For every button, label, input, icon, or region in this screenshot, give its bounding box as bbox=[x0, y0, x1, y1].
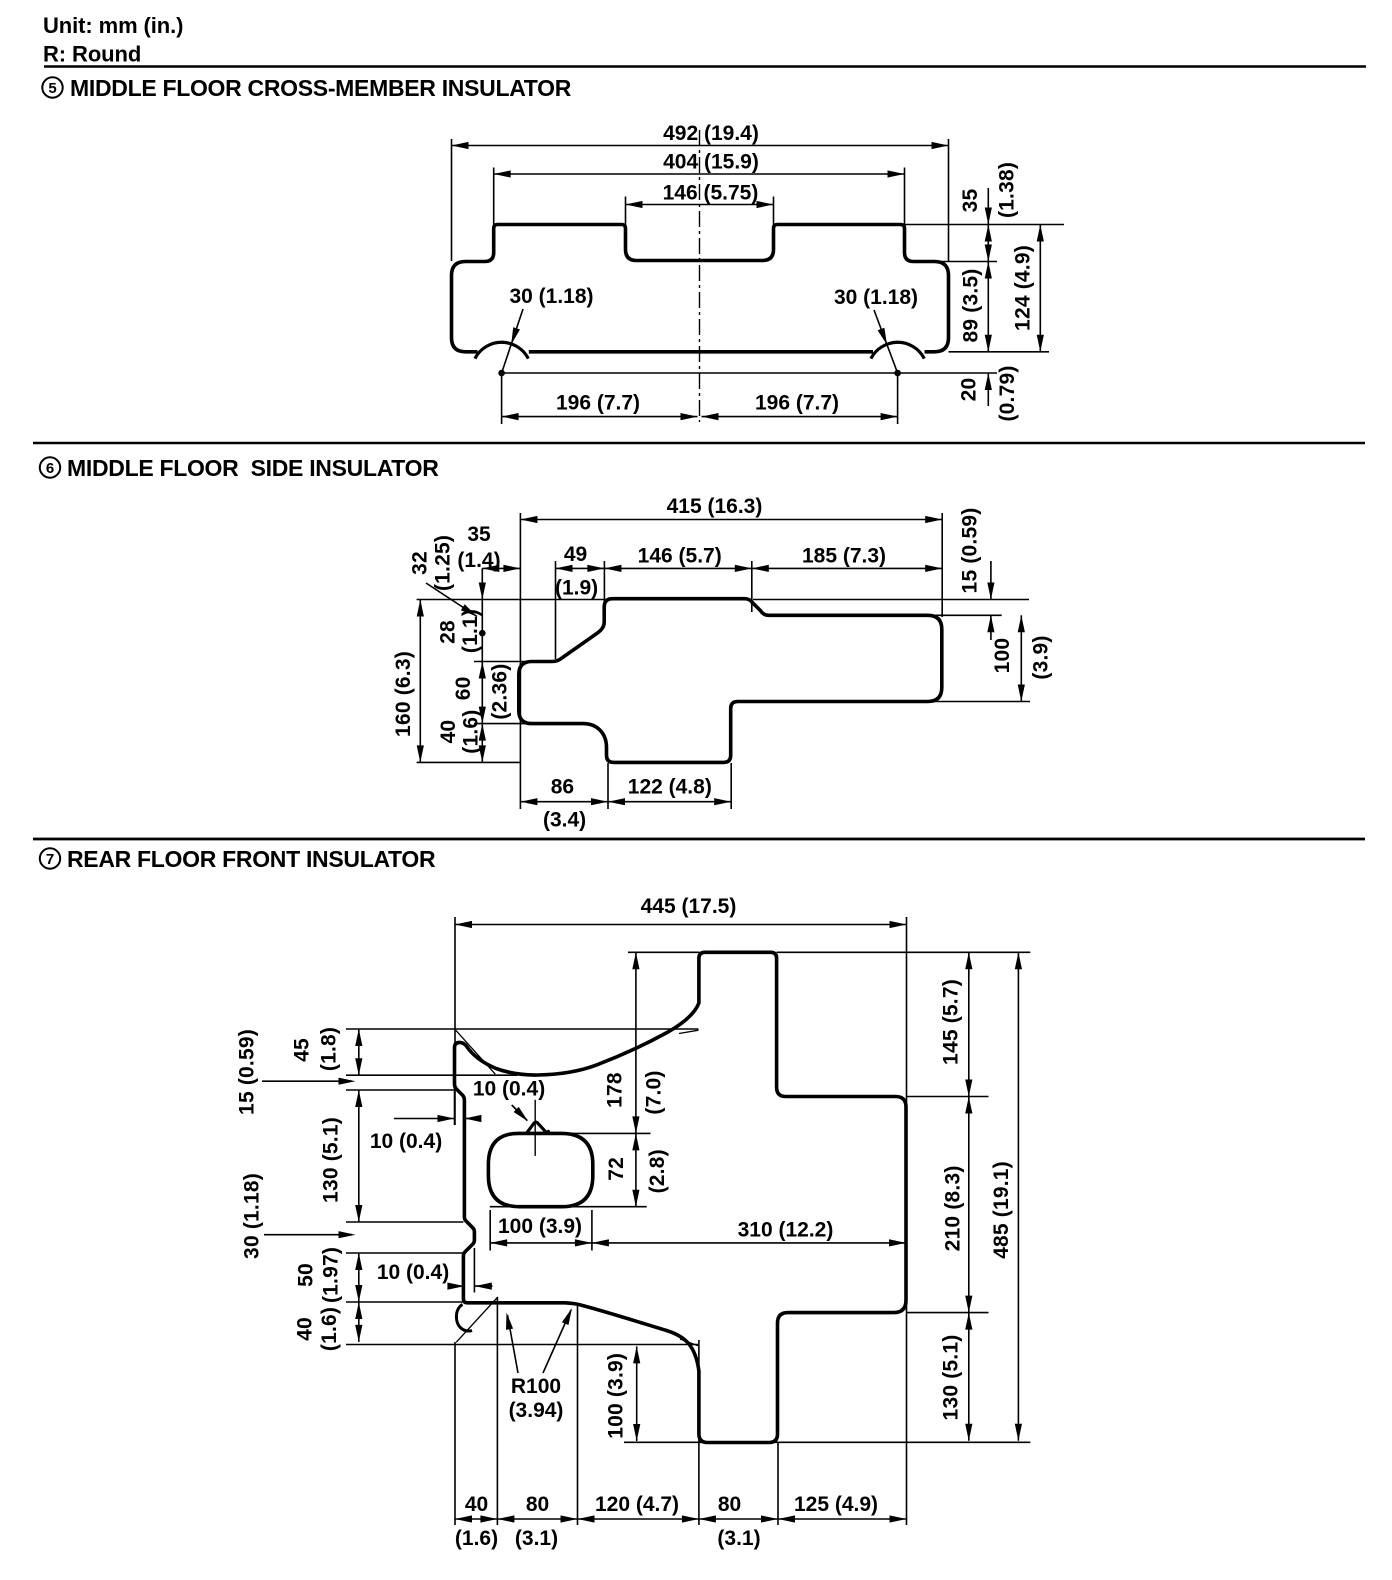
bump centerline bbox=[534, 1100, 536, 1156]
extension lines for 146 bbox=[625, 197, 627, 225]
svg-text:122 (4.8): 122 (4.8) bbox=[628, 776, 712, 799]
svg-text:196 (7.7): 196 (7.7) bbox=[755, 392, 839, 415]
dimension 72 (2.8) bbox=[635, 1133, 637, 1206]
svg-text:124 (4.9): 124 (4.9) bbox=[1012, 245, 1035, 331]
svg-text:20: 20 bbox=[958, 378, 981, 402]
svg-text:35: 35 bbox=[959, 189, 982, 213]
bottom dimension row extensions bbox=[454, 1342, 456, 1525]
svg-text:210 (8.3): 210 (8.3) bbox=[941, 1165, 964, 1251]
title 5 circle bbox=[42, 77, 62, 97]
svg-text:60: 60 bbox=[452, 677, 475, 701]
extension lines for 404 bbox=[493, 168, 495, 225]
dimension 485 (19.1) right bbox=[1017, 952, 1019, 1441]
svg-text:80: 80 bbox=[526, 1493, 549, 1516]
dimension 145 (5.7) right bbox=[968, 952, 970, 1096]
dimension 100 (3.9) bottom tab height bbox=[636, 1346, 638, 1441]
svg-text:86: 86 bbox=[551, 776, 574, 799]
dimension 100 (3.9) right bbox=[1020, 615, 1022, 701]
svg-text:80: 80 bbox=[718, 1493, 741, 1516]
extension lines diagram 2 bottom bbox=[607, 763, 609, 809]
svg-text:178: 178 bbox=[604, 1072, 627, 1108]
svg-text:196 (7.7): 196 (7.7) bbox=[556, 392, 640, 415]
dimension 15 (0.59) right bbox=[990, 561, 992, 600]
separator rule 3 bbox=[33, 838, 1365, 841]
extension line tab top left for 178 bbox=[628, 951, 699, 953]
svg-text:485 (19.1): 485 (19.1) bbox=[990, 1161, 1013, 1259]
extension lines diagram 2 right horizontals bbox=[753, 599, 1029, 601]
svg-text:35: 35 bbox=[467, 523, 491, 546]
dimension 210 (8.3) right bbox=[968, 1097, 970, 1313]
svg-text:130 (5.1): 130 (5.1) bbox=[320, 1117, 343, 1203]
svg-text:(1.6): (1.6) bbox=[318, 1307, 341, 1351]
construction tangent tick top right bbox=[679, 1030, 699, 1033]
svg-text:(3.4): (3.4) bbox=[543, 809, 586, 832]
svg-text:(1.25): (1.25) bbox=[432, 535, 455, 591]
svg-text:120 (4.7): 120 (4.7) bbox=[595, 1493, 679, 1516]
svg-text:(2.8): (2.8) bbox=[646, 1149, 669, 1193]
extension line y=373 (20 offset line) bbox=[502, 372, 997, 374]
svg-text:(3.1): (3.1) bbox=[515, 1527, 558, 1550]
svg-text:45: 45 bbox=[291, 1038, 314, 1062]
extension lines for 492 bbox=[451, 139, 453, 261]
extension for upper jog bbox=[454, 1085, 456, 1125]
svg-text:49: 49 bbox=[564, 543, 587, 566]
extension verticals 445 bbox=[454, 917, 456, 1125]
svg-text:185 (7.3): 185 (7.3) bbox=[802, 545, 886, 568]
dimension 124 (4.9) vertical right bbox=[1039, 225, 1041, 352]
svg-text:15 (0.59): 15 (0.59) bbox=[236, 1029, 259, 1115]
hole top bump bbox=[527, 1122, 550, 1133]
svg-text:40: 40 bbox=[294, 1317, 317, 1341]
svg-text:100 (3.9): 100 (3.9) bbox=[605, 1353, 628, 1439]
svg-text:(2.36): (2.36) bbox=[489, 664, 512, 720]
title 6 circle bbox=[40, 457, 60, 477]
svg-text:(3.94): (3.94) bbox=[509, 1399, 564, 1422]
extension for notch bbox=[473, 1248, 475, 1293]
svg-text:89 (3.5): 89 (3.5) bbox=[960, 269, 983, 343]
svg-text:50: 50 bbox=[295, 1263, 318, 1287]
svg-text:310 (12.2): 310 (12.2) bbox=[738, 1219, 834, 1242]
svg-text:(1.6): (1.6) bbox=[455, 1527, 498, 1550]
svg-text:10 (0.4): 10 (0.4) bbox=[473, 1078, 545, 1101]
svg-text:145 (5.7): 145 (5.7) bbox=[940, 979, 963, 1065]
svg-text:72: 72 bbox=[605, 1157, 628, 1181]
right horizontal extension lines diagram 3 bbox=[777, 951, 1031, 953]
construction tangent tick bottom right bbox=[680, 1339, 698, 1346]
svg-text:Unit: mm (in.): Unit: mm (in.) bbox=[43, 13, 183, 38]
svg-text:15 (0.59): 15 (0.59) bbox=[959, 508, 982, 594]
svg-text:445 (17.5): 445 (17.5) bbox=[641, 895, 737, 918]
bottom left hook arc bbox=[456, 1304, 472, 1331]
svg-text:492 (19.4): 492 (19.4) bbox=[663, 122, 759, 145]
svg-text:6: 6 bbox=[46, 460, 54, 477]
extension lines for 196 bbox=[501, 373, 503, 424]
svg-text:(0.79): (0.79) bbox=[996, 365, 1019, 421]
dimension 178 (7.0) bbox=[635, 952, 637, 1133]
svg-text:125 (4.9): 125 (4.9) bbox=[794, 1493, 878, 1516]
svg-text:(1.8): (1.8) bbox=[318, 1027, 341, 1071]
extension lines diagram 2 top bbox=[519, 513, 521, 809]
svg-text:(1.6): (1.6) bbox=[460, 710, 483, 754]
diagram 1 right bottom notch arc R30 bbox=[871, 342, 924, 358]
svg-text:(1.97): (1.97) bbox=[320, 1247, 343, 1303]
svg-text:MIDDLE FLOOR SIDE INSULATOR: MIDDLE FLOOR SIDE INSULATOR bbox=[67, 455, 439, 481]
header rule bbox=[44, 65, 1366, 68]
title 7 circle bbox=[40, 848, 60, 868]
separator rule 2 bbox=[33, 442, 1365, 445]
diagram 3 outline: rear floor front insulator bbox=[455, 952, 907, 1442]
construction tangent line bottom left bbox=[456, 1297, 498, 1342]
left horizontal extension lines diagram 3 bbox=[346, 1028, 699, 1030]
extension lines diagram 2 left horizontals bbox=[417, 599, 610, 601]
svg-text:32: 32 bbox=[409, 551, 432, 575]
dimension 35 vertical right bbox=[987, 188, 989, 225]
svg-text:404 (15.9): 404 (15.9) bbox=[663, 151, 759, 174]
left dim column 45/130/50/40 bbox=[358, 1029, 360, 1075]
svg-text:30 (1.18): 30 (1.18) bbox=[834, 286, 918, 309]
diagram 1 left bottom notch arc R30 bbox=[475, 342, 528, 358]
svg-text:(3.9): (3.9) bbox=[1030, 635, 1053, 679]
extension line from tab top right bbox=[905, 224, 1065, 226]
left dim column 32/28/60/40 bbox=[481, 568, 483, 661]
svg-text:146 (5.75): 146 (5.75) bbox=[663, 182, 759, 205]
svg-text:160 (6.3): 160 (6.3) bbox=[392, 651, 415, 737]
svg-text:40: 40 bbox=[437, 720, 460, 744]
svg-text:(3.1): (3.1) bbox=[717, 1527, 760, 1550]
svg-text:7: 7 bbox=[46, 851, 54, 868]
svg-text:30 (1.18): 30 (1.18) bbox=[509, 285, 593, 308]
extension line from body top right bbox=[918, 261, 997, 263]
svg-text:30 (1.18): 30 (1.18) bbox=[241, 1173, 264, 1259]
svg-text:5: 5 bbox=[48, 80, 56, 97]
svg-text:130 (5.1): 130 (5.1) bbox=[940, 1335, 963, 1421]
svg-text:(1.1): (1.1) bbox=[459, 609, 482, 653]
svg-text:(1.9): (1.9) bbox=[555, 577, 598, 600]
arc center dots bbox=[498, 370, 505, 377]
diagram 3 oval hole bbox=[488, 1133, 592, 1206]
diagram 1 vertical centerline bbox=[699, 130, 701, 422]
dimension 20 (0.79) vertical right bbox=[987, 373, 989, 406]
dimension 89 (3.5) vertical right bbox=[987, 262, 989, 352]
hole bottom extension bbox=[490, 1206, 647, 1208]
svg-text:10 (0.4): 10 (0.4) bbox=[377, 1261, 449, 1284]
hole top extension bbox=[565, 1132, 651, 1134]
svg-text:28: 28 bbox=[437, 620, 460, 644]
svg-text:40: 40 bbox=[465, 1493, 488, 1516]
svg-text:R100: R100 bbox=[511, 1375, 561, 1398]
diagram 2 outline: middle floor side insulator bbox=[519, 599, 942, 763]
svg-text:(1.38): (1.38) bbox=[995, 162, 1018, 218]
svg-text:100: 100 bbox=[991, 638, 1014, 674]
svg-text:10 (0.4): 10 (0.4) bbox=[370, 1130, 442, 1153]
dimension 130 (5.1) right bbox=[968, 1313, 970, 1441]
svg-text:(7.0): (7.0) bbox=[642, 1070, 665, 1114]
diagram 1 outline: middle floor cross-member insulator bbox=[452, 225, 949, 352]
svg-text:100 (3.9): 100 (3.9) bbox=[498, 1215, 582, 1238]
svg-text:R: Round: R: Round bbox=[43, 42, 141, 67]
dimension 160 (6.3) vertical left bbox=[419, 600, 421, 763]
svg-text:146 (5.7): 146 (5.7) bbox=[638, 545, 722, 568]
extension line from body bottom right bbox=[949, 351, 1050, 353]
svg-text:415 (16.3): 415 (16.3) bbox=[667, 495, 763, 518]
construction tangent line top left bbox=[456, 1030, 496, 1074]
svg-text:REAR FLOOR FRONT INSULATOR: REAR FLOOR FRONT INSULATOR bbox=[67, 846, 436, 872]
svg-text:MIDDLE FLOOR CROSS-MEMBER INSU: MIDDLE FLOOR CROSS-MEMBER INSULATOR bbox=[70, 75, 572, 101]
